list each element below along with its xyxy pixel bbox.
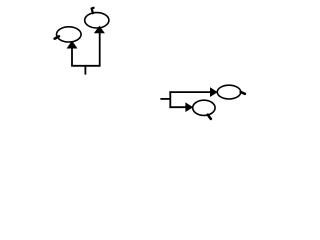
wire: vertical from arrow A down to junction bar — [71, 48, 73, 66]
node D (bottom-right lower ellipse) — [193, 100, 215, 115]
arrowhead into node D — [186, 103, 193, 112]
node B (top-left upper ellipse) — [85, 13, 109, 28]
wire: short entry line (bottom-right group) — [160, 98, 170, 100]
spur on node D (bottom tick) — [208, 115, 211, 119]
arrowhead into node C — [210, 88, 217, 97]
wire: horizontal junction bar — [71, 65, 100, 67]
spur on node C (right side tick) — [241, 92, 245, 94]
wire: stub below junction bar — [84, 66, 86, 75]
node C (bottom-right upper ellipse) — [217, 85, 240, 99]
arrowhead into node A — [67, 41, 77, 48]
wire: top branch to node C — [169, 91, 210, 93]
spur on node B (top tick) — [92, 8, 94, 13]
node A (top-left lower ellipse) — [57, 27, 82, 42]
arrowhead into node B — [95, 26, 105, 33]
wire: bottom branch to node D — [169, 106, 186, 108]
spur on node A (left side tick) — [55, 36, 59, 38]
wire: vertical from arrow B down to junction bar — [99, 33, 101, 66]
wire: vertical branch line (bottom-right group) — [169, 91, 171, 108]
